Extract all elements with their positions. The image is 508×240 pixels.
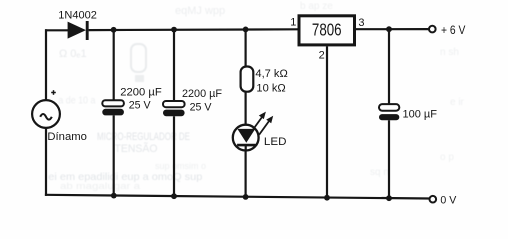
- wire: C1 branch upper: [113, 30, 115, 101]
- terminal 0V: [430, 196, 437, 203]
- node: bottom junction pin2: [324, 195, 330, 201]
- svg-text:3: 3: [358, 17, 364, 29]
- regulator U1 7806: [299, 16, 355, 45]
- svg-text:eqMJ wpp: eqMJ wpp: [175, 5, 225, 17]
- capacitor C1 2200uF: [102, 100, 124, 115]
- wire: C1 branch lower: [113, 115, 115, 196]
- wire: pin2 ground drop: [326, 46, 328, 197]
- svg-text:25 V: 25 V: [129, 99, 152, 111]
- svg-text:7806: 7806: [312, 20, 342, 40]
- node: junction top of C1: [111, 27, 117, 33]
- svg-text:25 V: 25 V: [190, 101, 213, 113]
- diode D1 1N4002: [68, 21, 88, 40]
- svg-text:TENSÃO: TENSÃO: [115, 142, 158, 155]
- svg-text:+ 6 V: + 6 V: [441, 23, 465, 37]
- wire: C2 branch upper: [173, 30, 175, 102]
- svg-text:o p: o p: [440, 152, 454, 163]
- svg-text:2200 µF: 2200 µF: [182, 88, 222, 100]
- svg-text:Ω 0ₑ1: Ω 0ₑ1: [59, 48, 87, 60]
- svg-text:2: 2: [319, 50, 325, 62]
- wire: R1 to LED: [245, 92, 247, 130]
- polarity + mark: [51, 90, 56, 95]
- node: junction top of C3: [386, 26, 392, 32]
- wire: R1 branch upper: [245, 29, 247, 66]
- wire: C3 branch lower: [388, 120, 390, 198]
- svg-text:4,7 kΩ: 4,7 kΩ: [255, 68, 287, 80]
- node: bottom junction C2: [171, 193, 177, 199]
- svg-text:Dínamo: Dínamo: [47, 131, 87, 143]
- svg-text:1N4002: 1N4002: [58, 10, 97, 22]
- wire: bottom rail: [45, 195, 430, 199]
- wire: left vertical upper (top wire down to dynamo +): [45, 29, 47, 100]
- svg-text:100 µF: 100 µF: [403, 109, 438, 121]
- svg-text:0 V: 0 V: [440, 194, 457, 206]
- wire: LED branch lower: [245, 150, 247, 197]
- svg-text:MICRO-REGULADOR DE: MICRO-REGULADOR DE: [97, 131, 190, 143]
- wire: top-left horizontal (dynamo to diode anode): [45, 29, 68, 31]
- terminal +6V: [429, 26, 436, 33]
- node: junction top of R1: [243, 27, 249, 33]
- wire: left vertical lower (dynamo to bottom rail): [45, 128, 47, 196]
- capacitor C2 2200uF: [163, 101, 185, 116]
- node: junction top of C2: [171, 27, 177, 33]
- ghost bleed-through text (decor): [48, 1, 464, 191]
- svg-text:10 kΩ: 10 kΩ: [256, 83, 285, 95]
- svg-text:a de 10 a: a de 10 a: [58, 96, 95, 107]
- svg-text:sq n: sq n: [370, 167, 389, 178]
- svg-text:sup omsim o: sup omsim o: [155, 161, 206, 171]
- svg-text:e ir: e ir: [450, 97, 465, 108]
- wire: 7806 pin3 to +6V terminal: [356, 28, 429, 30]
- node: bottom junction C1: [111, 193, 117, 199]
- LED D2: [233, 125, 259, 151]
- wire: top horizontal (diode cathode to 7806 pin1): [89, 28, 298, 31]
- generator G1 (Dinamo): [32, 100, 60, 128]
- svg-text:n sh: n sh: [440, 47, 459, 58]
- node: bottom junction C3: [386, 195, 392, 201]
- svg-text:2200 µF: 2200 µF: [120, 87, 162, 99]
- node: bottom junction LED branch: [243, 194, 249, 200]
- svg-text:ab magalugar a: ab magalugar a: [60, 181, 140, 191]
- svg-text:1: 1: [290, 16, 296, 28]
- svg-text:b ap ze: b ap ze: [300, 1, 333, 12]
- wire: C3 branch upper: [388, 29, 390, 104]
- LED arrows: [252, 112, 273, 135]
- wire: C2 branch lower: [173, 116, 175, 196]
- resistor R1: [241, 67, 254, 92]
- svg-text:LED: LED: [264, 136, 287, 148]
- capacitor C3 100uF: [379, 104, 399, 120]
